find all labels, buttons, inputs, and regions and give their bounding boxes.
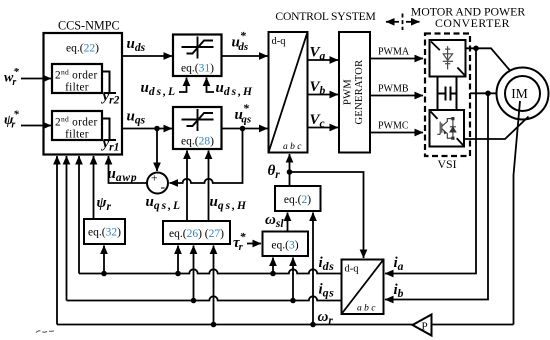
svg-text:eq.(28): eq.(28) xyxy=(181,136,214,148)
block saturation eq.(31) xyxy=(173,35,222,77)
wire u_ds,H stub xyxy=(207,78,215,93)
wire theta_r xyxy=(289,154,291,186)
svg-text:eq.(26) (27): eq.(26) (27) xyxy=(169,228,224,240)
wire u_qs,L limit xyxy=(186,151,188,222)
wire ids into eq3 xyxy=(272,258,274,274)
wire Vc xyxy=(308,127,339,129)
svg-text:filter: filter xyxy=(65,129,89,141)
wire ib feedback xyxy=(385,93,488,299)
block 2nd order filter F1 xyxy=(52,64,102,93)
wire omega_sl xyxy=(287,213,289,232)
wire PWMB xyxy=(370,95,423,97)
node on u*_qs xyxy=(240,126,246,132)
wire u_qs,H limit xyxy=(208,151,210,222)
wire ia feedback xyxy=(385,48,476,273)
wire psi_r xyxy=(93,156,95,219)
svg-text:d-q: d-q xyxy=(272,36,287,47)
wire u*_qs xyxy=(222,128,268,130)
svg-text:PWM: PWM xyxy=(343,79,354,105)
inverter IGBT xyxy=(437,119,456,139)
node ids eq2627 xyxy=(175,271,181,277)
svg-text:+: + xyxy=(151,173,158,185)
block eq.(3) xyxy=(263,232,309,257)
wire mid phase to motor xyxy=(470,92,497,94)
wire tau_r* xyxy=(247,243,261,245)
node theta_r xyxy=(287,169,293,175)
block 2nd order filter F2 xyxy=(52,111,102,140)
wire u*_ds xyxy=(222,55,268,57)
wire wr* xyxy=(21,78,51,80)
svg-text:VSI: VSI xyxy=(437,157,456,171)
dc link rails xyxy=(437,77,439,111)
svg-text:eq.(31): eq.(31) xyxy=(181,63,214,75)
block saturation eq.(28) xyxy=(173,107,222,149)
svg-text:a b c: a b c xyxy=(283,142,302,152)
motor IM inner circle xyxy=(505,76,540,111)
svg-text:PWMB: PWMB xyxy=(378,84,409,95)
svg-text:a b c: a b c xyxy=(357,304,376,314)
node on u_qs xyxy=(154,126,160,132)
block dq-abc transform xyxy=(269,32,308,153)
block PWM generator xyxy=(339,32,370,153)
VSI dashed box xyxy=(425,34,470,157)
wire omega_r into eq2 xyxy=(312,213,314,325)
block eq.(2) xyxy=(275,186,321,211)
svg-text:CONVERTER: CONVERTER xyxy=(435,16,510,30)
block abc-dq transform xyxy=(342,260,384,315)
svg-text:PWMA: PWMA xyxy=(378,47,410,58)
svg-text:P: P xyxy=(421,321,427,333)
wire u_ds,L stub xyxy=(179,78,187,93)
wire PWMA xyxy=(370,58,423,60)
svg-text:CONTROL SYSTEM: CONTROL SYSTEM xyxy=(275,10,375,23)
svg-text:eq.(2): eq.(2) xyxy=(284,194,311,206)
wire rectifier to motor xyxy=(466,48,511,70)
wire i_ds xyxy=(79,269,342,273)
svg-text:PWMC: PWMC xyxy=(378,121,409,132)
node wr eq2627 xyxy=(211,322,217,328)
wire u_qs to summer xyxy=(156,129,158,172)
dc link capacitor xyxy=(438,87,457,101)
wire u*_qs feedback to summer xyxy=(170,129,243,184)
svg-text:eq.(22): eq.(22) xyxy=(66,43,99,55)
wire Vb xyxy=(308,94,339,96)
wire PWMC xyxy=(370,132,423,134)
wire u_ds xyxy=(122,55,172,57)
motor IM outer circle xyxy=(497,68,549,120)
inverter box xyxy=(430,110,465,147)
wire motor shaft xyxy=(514,101,521,325)
svg-text:-: - xyxy=(161,180,166,195)
block eq.(26)(27) xyxy=(163,221,230,244)
svg-text:GENERATOR: GENERATOR xyxy=(354,60,365,125)
wire i_qs up into CCS xyxy=(66,156,68,301)
step symbol S1 xyxy=(102,72,116,94)
wire omega_r horizontal xyxy=(57,324,413,326)
divider right arrow xyxy=(406,21,420,23)
node omega_r xyxy=(310,322,316,328)
rectifier box xyxy=(430,40,466,77)
squiggle mark xyxy=(36,331,54,333)
wire theta_r branch to abc-dq xyxy=(290,172,364,258)
wire P to shaft xyxy=(432,324,514,326)
wire inverter to motor xyxy=(464,117,529,140)
block eq.(32) xyxy=(84,219,125,244)
rectifier diode xyxy=(443,46,453,69)
divider dashed line xyxy=(402,14,404,31)
wire iqs into eq2627 xyxy=(193,246,195,301)
step symbol S2 xyxy=(102,119,116,141)
svg-text:IM: IM xyxy=(511,86,528,101)
wire i_ds up into CCS xyxy=(78,156,80,274)
node ids eq3 xyxy=(270,271,276,277)
wire wr into eq2627 xyxy=(213,246,215,325)
wire ids into eq2627 xyxy=(177,246,179,274)
wire u_qs xyxy=(122,128,172,130)
wire i_qs xyxy=(67,296,342,300)
wire psi r* xyxy=(21,125,51,127)
wire into eq.(32) xyxy=(103,246,105,274)
svg-text:filter: filter xyxy=(65,82,89,94)
node iqs eq3 xyxy=(290,298,296,304)
node iqs eq2627 xyxy=(191,298,197,304)
svg-text:CCS-NMPC: CCS-NMPC xyxy=(58,19,120,33)
block CCS-NMPC outer box xyxy=(44,33,123,155)
svg-text:eq.(3): eq.(3) xyxy=(271,240,298,252)
wire u_awp xyxy=(109,156,148,183)
svg-text:d-q: d-q xyxy=(345,264,360,275)
node ia tap xyxy=(473,46,479,52)
divider left arrow xyxy=(386,21,399,23)
node ib tap xyxy=(485,91,491,97)
svg-text:eq.(32): eq.(32) xyxy=(88,227,121,239)
wire Va xyxy=(308,59,339,61)
speed sensor P triangle xyxy=(413,315,432,336)
wire iqs into eq3 xyxy=(292,258,294,301)
wire omega_r up into CCS xyxy=(56,156,58,325)
node on i_ds wire at eq32 xyxy=(101,271,107,277)
summer circle xyxy=(147,173,168,194)
